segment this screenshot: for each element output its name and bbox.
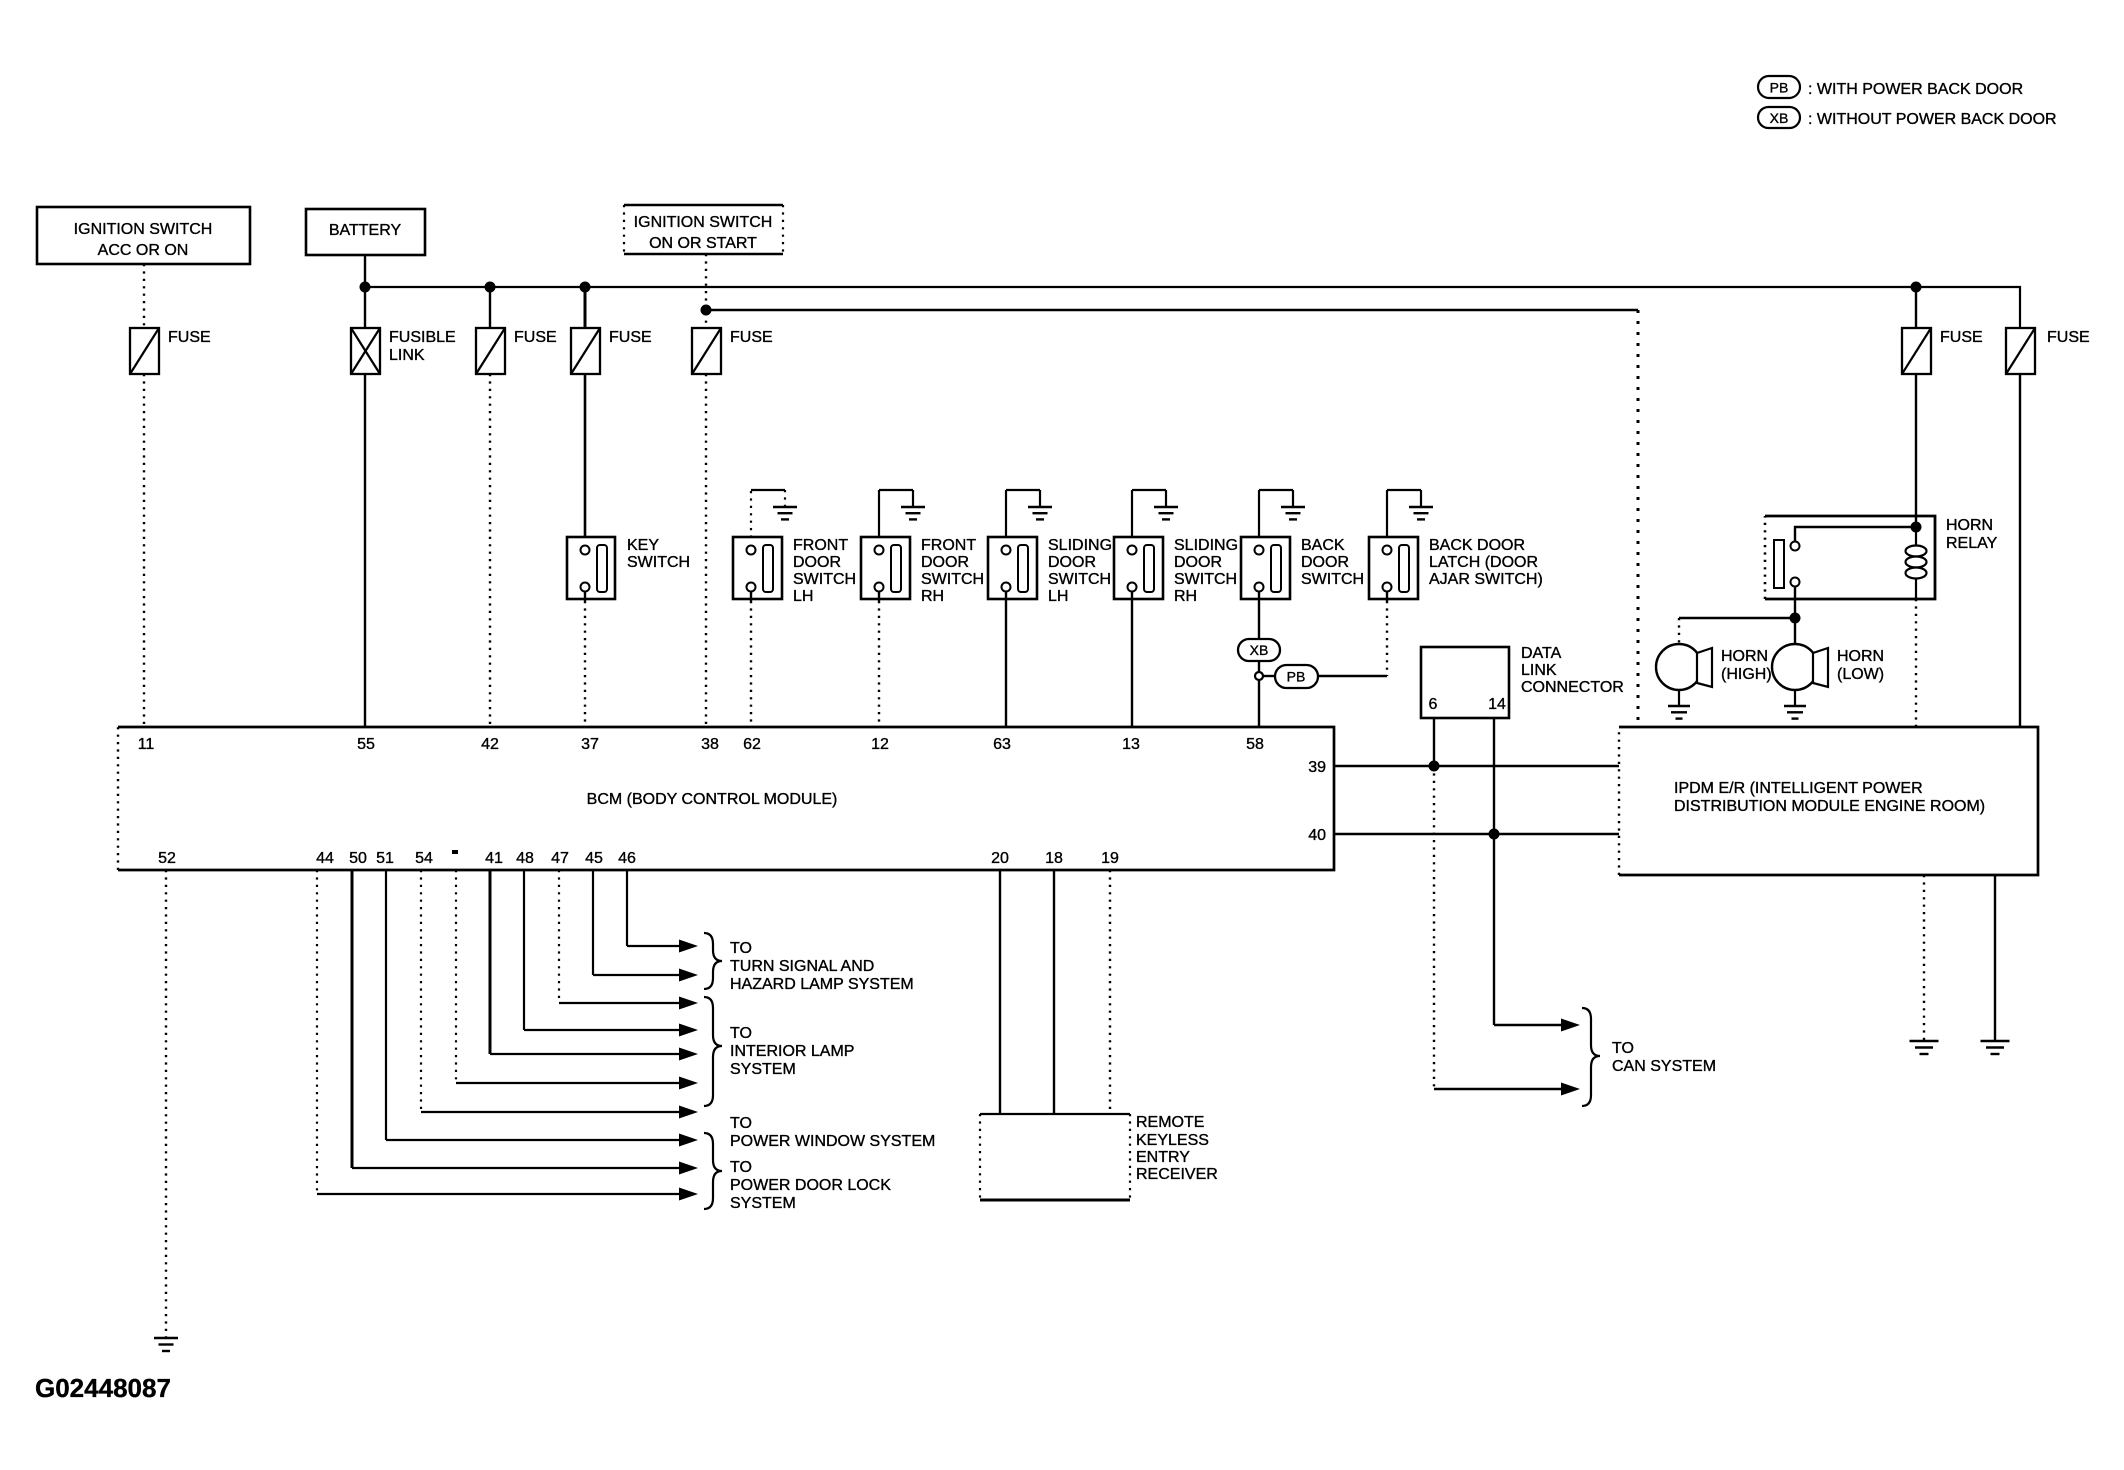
svg-text:IPDM E/R (INTELLIGENT POWER: IPDM E/R (INTELLIGENT POWER (1674, 780, 1923, 797)
svg-text:LINK: LINK (389, 347, 425, 364)
svg-text:CONNECTOR: CONNECTOR (1521, 679, 1624, 696)
fuse F2 (476, 328, 505, 374)
svg-text:62: 62 (743, 736, 761, 753)
node open circle (1255, 672, 1263, 680)
wire node to BCM pin 58 (1258, 680, 1260, 727)
svg-text:: WITHOUT POWER BACK DOOR: : WITHOUT POWER BACK DOOR (1808, 111, 2057, 128)
svg-text:BACK: BACK (1301, 537, 1345, 554)
label REMOTE KEYLESS ENTRY RECEIVER (1136, 1114, 1218, 1183)
svg-text:6: 6 (1429, 696, 1438, 713)
ground (901, 507, 925, 519)
svg-text:55: 55 (357, 736, 375, 753)
svg-text:RH: RH (921, 588, 944, 605)
label HORN RELAY (1946, 517, 1998, 552)
brace power door lock group (704, 1133, 722, 1209)
svg-text:SWITCH: SWITCH (1301, 571, 1364, 588)
ground (1154, 507, 1178, 519)
wire DLC pin 6 down (1433, 718, 1435, 766)
wire relay coil to IPDM (1915, 599, 1917, 727)
wire fuse F2 to BCM pin 42 (489, 374, 491, 727)
svg-text:58: 58 (1246, 736, 1264, 753)
wire horn high drop (1678, 618, 1680, 644)
ground horn low (1784, 706, 1806, 719)
relay coil (1906, 527, 1927, 599)
svg-text:KEY: KEY (627, 537, 659, 554)
svg-text:TURN SIGNAL AND: TURN SIGNAL AND (730, 958, 874, 975)
BCM bottom pin mark (unreadable) (452, 850, 458, 854)
svg-text:SLIDING: SLIDING (1174, 537, 1238, 554)
wire DLC pin 14 down (1493, 718, 1495, 834)
svg-text:LH: LH (1048, 588, 1068, 605)
svg-text:TO: TO (730, 940, 752, 957)
BCM (Body Control Module) box (118, 727, 1334, 870)
connector PB pill (1275, 665, 1318, 688)
svg-text:IGNITION SWITCH: IGNITION SWITCH (634, 214, 773, 231)
key switch (567, 537, 615, 599)
svg-text:FRONT: FRONT (793, 537, 848, 554)
horn low (1772, 644, 1828, 706)
wire BCM pin 47 (559, 870, 698, 1010)
wire BCM pin 19 to RKE (1109, 870, 1111, 1114)
svg-text:LH: LH (793, 588, 813, 605)
label TO CAN SYSTEM (1612, 1040, 1716, 1075)
svg-text:DOOR: DOOR (921, 554, 969, 571)
horn relay box (1765, 516, 1935, 599)
svg-text:(HIGH): (HIGH) (1721, 666, 1772, 683)
svg-text:SWITCH: SWITCH (627, 554, 690, 571)
svg-text:51: 51 (376, 850, 394, 867)
wire DLC pin 6 to CAN (1433, 766, 1435, 1089)
IPDM E/R box (1619, 727, 2038, 875)
wire FDS RH to BCM pin 12 (878, 592, 880, 601)
wire BCM pin pin ' (456, 870, 698, 1090)
wire bus1 to fuse F6 (1915, 287, 1917, 328)
fuse F3 (571, 328, 600, 374)
wire key switch to BCM pin 37 (584, 592, 586, 601)
svg-text:SYSTEM: SYSTEM (730, 1061, 796, 1078)
svg-text:19: 19 (1101, 850, 1119, 867)
svg-text:48: 48 (516, 850, 534, 867)
svg-text:18: 18 (1045, 850, 1063, 867)
wire switch ground hook (1005, 490, 1007, 545)
svg-text:INTERIOR LAMP: INTERIOR LAMP (730, 1043, 854, 1060)
label text BACK DOOR SWITCH (1301, 537, 1364, 588)
label TO POWER WINDOW SYSTEM (730, 1115, 935, 1150)
relay contact bar (1774, 540, 1784, 588)
back door latch (door ajar switch) (1369, 537, 1418, 599)
svg-text:12: 12 (871, 736, 889, 753)
wire BCM pin 51 (386, 870, 698, 1147)
wire BDS to XB connector (1258, 592, 1260, 639)
wire switch ground hook (750, 490, 752, 545)
svg-text:REMOTE: REMOTE (1136, 1114, 1204, 1131)
label DATA LINK CONNECTOR (1521, 645, 1624, 696)
wire BCM pin 48 (524, 870, 698, 1037)
svg-text:AJAR SWITCH): AJAR SWITCH) (1429, 571, 1543, 588)
svg-text:RECEIVER: RECEIVER (1136, 1166, 1218, 1183)
label text FRONT DOOR SWITCH LH (793, 537, 856, 605)
label TO TURN SIGNAL AND HAZARD LAMP SYSTEM (730, 940, 914, 993)
wire DLC pin 14 to CAN (1493, 834, 1495, 1025)
svg-text:BACK DOOR: BACK DOOR (1429, 537, 1525, 554)
wire fuse F1 to BCM pin 11 (143, 374, 145, 727)
svg-text:47: 47 (551, 850, 569, 867)
svg-text:ACC OR ON: ACC OR ON (98, 242, 189, 259)
box IGNITION SWITCH ON OR START (624, 205, 783, 254)
back door switch (1241, 537, 1290, 599)
svg-text:TO: TO (730, 1115, 752, 1132)
svg-text:TO: TO (730, 1025, 752, 1042)
BCM top pin labels (138, 736, 1264, 753)
svg-text:FUSE: FUSE (730, 329, 773, 346)
wire bus1 to fuse F3 (584, 287, 587, 328)
svg-text:RH: RH (1174, 588, 1197, 605)
junction bus1-fuse3 (580, 282, 591, 293)
wire BDL down to PB link (1386, 592, 1388, 601)
wire to horn high (1679, 617, 1795, 619)
svg-text:HORN: HORN (1721, 648, 1768, 665)
ground (1028, 507, 1052, 519)
front door switch LH (733, 537, 782, 599)
svg-text:LINK: LINK (1521, 662, 1557, 679)
svg-text:14: 14 (1488, 696, 1506, 713)
wire bus2 ignition feed (706, 309, 1638, 311)
wire bus1 battery feed (365, 287, 2020, 328)
wire fuse F4 to BCM pin 38 (705, 374, 707, 727)
relay internal wire (1795, 527, 1916, 541)
box IGNITION SWITCH ACC OR ON (37, 207, 250, 264)
svg-text:DOOR: DOOR (793, 554, 841, 571)
svg-text:G02448087: G02448087 (35, 1373, 171, 1403)
label text SLIDING DOOR SWITCH LH (1048, 537, 1112, 605)
svg-text:HORN: HORN (1946, 517, 1993, 534)
svg-text:46: 46 (618, 850, 636, 867)
svg-text:CAN SYSTEM: CAN SYSTEM (1612, 1058, 1716, 1075)
svg-text:FUSE: FUSE (2047, 329, 2090, 346)
svg-text:40: 40 (1308, 827, 1326, 844)
wire BCM pin 40 to IPDM (1334, 833, 1619, 836)
horn high (1656, 644, 1712, 706)
svg-text:TO: TO (1612, 1040, 1634, 1057)
wire switch ground hook (878, 490, 880, 545)
wire ignition ON/START down through bus (705, 254, 707, 328)
svg-text:13: 13 (1122, 736, 1140, 753)
junction bus1-fuse2 (485, 282, 496, 293)
wire FDS LH to BCM pin 62 (750, 592, 752, 601)
svg-text:HAZARD LAMP SYSTEM: HAZARD LAMP SYSTEM (730, 976, 914, 993)
svg-text:BATTERY: BATTERY (329, 222, 402, 239)
svg-text:: WITH POWER BACK DOOR: : WITH POWER BACK DOOR (1808, 81, 2023, 98)
arrow to CAN (high) (1494, 1019, 1580, 1032)
wire to horn low (1794, 618, 1796, 644)
svg-text:FUSE: FUSE (514, 329, 557, 346)
wire bus1 to fuse F2 (489, 287, 491, 328)
svg-text:KEYLESS: KEYLESS (1136, 1132, 1209, 1149)
wire fusible link to BCM pin 55 (364, 374, 366, 727)
sliding door switch LH (988, 537, 1037, 599)
data link connector box (1421, 647, 1509, 718)
svg-text:SLIDING: SLIDING (1048, 537, 1112, 554)
svg-text:POWER WINDOW SYSTEM: POWER WINDOW SYSTEM (730, 1133, 935, 1150)
fuse F6 (horn relay) (1902, 328, 1931, 374)
svg-text:52: 52 (158, 850, 176, 867)
wire battery down (364, 255, 366, 328)
sliding door switch RH (1114, 537, 1163, 599)
junction DLC14-wire40 (1489, 829, 1500, 840)
wire fuse F6 to horn relay (1915, 374, 1917, 527)
svg-text:SYSTEM: SYSTEM (730, 1195, 796, 1212)
brace turn signal group (704, 933, 722, 989)
arrow to CAN (low) (1434, 1083, 1580, 1096)
wire BCM pin 39 to IPDM (1334, 765, 1619, 768)
svg-text:50: 50 (349, 850, 367, 867)
wire node to PB pill (1263, 675, 1275, 677)
svg-text:39: 39 (1308, 759, 1326, 776)
legend PB pill (1758, 76, 1800, 98)
junction bus1-fuse6 (1911, 282, 1922, 293)
wire BCM pin 18 to RKE (1053, 870, 1055, 1114)
ground (1409, 507, 1433, 519)
wire relay output down (1794, 587, 1796, 618)
svg-text:(LOW): (LOW) (1837, 666, 1884, 683)
svg-text:45: 45 (585, 850, 603, 867)
wire bus2 drop to IPDM (1637, 310, 1640, 727)
svg-text:RELAY: RELAY (1946, 535, 1998, 552)
svg-text:FRONT: FRONT (921, 537, 976, 554)
junction bus1-battery (360, 282, 371, 293)
svg-text:FUSE: FUSE (609, 329, 652, 346)
ground horn high (1668, 706, 1690, 719)
svg-text:FUSE: FUSE (1940, 329, 1983, 346)
wire BCM pin 52 to ground (165, 870, 167, 1338)
ground (1281, 507, 1305, 519)
svg-text:DATA: DATA (1521, 645, 1562, 662)
svg-text:POWER DOOR LOCK: POWER DOOR LOCK (730, 1177, 891, 1194)
svg-text:ON OR START: ON OR START (649, 235, 757, 252)
label text FRONT DOOR SWITCH RH (921, 537, 984, 605)
svg-text:FUSIBLE: FUSIBLE (389, 329, 456, 346)
svg-text:DOOR: DOOR (1174, 554, 1222, 571)
brace interior lamp group (704, 997, 722, 1106)
label KEY SWITCH (627, 537, 690, 571)
svg-text:LATCH (DOOR: LATCH (DOOR (1429, 554, 1538, 571)
svg-text:PB: PB (1770, 80, 1789, 96)
svg-text:42: 42 (481, 736, 499, 753)
label text SLIDING DOOR SWITCH RH (1174, 537, 1238, 605)
wire switch ground hook (1258, 490, 1260, 545)
label TO POWER DOOR LOCK SYSTEM (730, 1159, 891, 1212)
svg-text:ENTRY: ENTRY (1136, 1149, 1190, 1166)
front door switch RH (861, 537, 910, 599)
wire BCM pin 46 (627, 870, 698, 953)
svg-text:FUSE: FUSE (168, 329, 211, 346)
wire IPDM ground 1 (1923, 875, 1925, 1041)
wire SDS LH to BCM pin 63 (1005, 592, 1007, 727)
svg-text:SWITCH: SWITCH (921, 571, 984, 588)
svg-text:IGNITION SWITCH: IGNITION SWITCH (74, 221, 213, 238)
junction relay coil feed (1911, 522, 1922, 533)
svg-text:HORN: HORN (1837, 648, 1884, 665)
brace CAN system (1582, 1008, 1600, 1106)
BCM right pin labels 39 40 (1308, 759, 1326, 844)
wire BCM pin 54 (421, 870, 698, 1119)
ground IPDM 2 (1981, 1041, 2010, 1054)
fuse F1 (ACC) (130, 328, 159, 374)
wire switch ground hook (1386, 490, 1388, 545)
svg-text:63: 63 (993, 736, 1011, 753)
svg-text:XB: XB (1250, 642, 1269, 658)
svg-text:20: 20 (991, 850, 1009, 867)
junction horns (1790, 613, 1801, 624)
wire BCM pin 50 (352, 870, 698, 1175)
junction bus2-ignition (701, 305, 712, 316)
wire BCM pin 41 (490, 870, 698, 1061)
wire BCM pin 45 (593, 870, 698, 982)
fuse F7 (IPDM) (2006, 328, 2035, 374)
label IPDM E/R (1674, 780, 1985, 815)
BCM bottom pin labels (158, 850, 1119, 867)
wire BCM pin 44 (317, 870, 698, 1201)
fusible link (351, 328, 380, 374)
svg-text:37: 37 (581, 736, 599, 753)
relay contact pins (1791, 542, 1800, 587)
remote keyless entry receiver box (980, 1114, 1130, 1200)
svg-text:BCM (BODY CONTROL MODULE): BCM (BODY CONTROL MODULE) (587, 791, 838, 808)
box BATTERY (306, 209, 425, 255)
ground pin 52 (154, 1338, 178, 1351)
svg-text:XB: XB (1770, 110, 1789, 126)
wire fuse F3 to key switch (584, 374, 587, 545)
svg-text:SWITCH: SWITCH (1048, 571, 1111, 588)
svg-text:38: 38 (701, 736, 719, 753)
fuse F4 (ignition) (692, 328, 721, 374)
wire switch ground hook (1131, 490, 1133, 545)
svg-text:11: 11 (138, 736, 155, 753)
label horn low (1837, 648, 1884, 683)
svg-text:44: 44 (316, 850, 334, 867)
label text BACK DOOR LATCH (1429, 537, 1543, 588)
wire PB pill to back door latch (1318, 675, 1387, 677)
wire SDS RH to BCM pin 13 (1131, 592, 1133, 727)
ground (773, 507, 797, 519)
wire ignition ACC to fuse (143, 264, 145, 328)
wire IPDM ground 2 (1994, 875, 1996, 1041)
wire XB to node (1258, 661, 1260, 672)
legend XB pill (1758, 107, 1800, 128)
svg-text:PB: PB (1287, 669, 1306, 685)
junction DLC6-wire39 (1429, 761, 1440, 772)
svg-text:SWITCH: SWITCH (793, 571, 856, 588)
svg-text:DOOR: DOOR (1301, 554, 1349, 571)
svg-text:TO: TO (730, 1159, 752, 1176)
ground IPDM 1 (1910, 1041, 1939, 1054)
wire BCM pin 20 to RKE (999, 870, 1001, 1114)
svg-text:41: 41 (485, 850, 503, 867)
label horn high (1721, 648, 1772, 683)
svg-text:DISTRIBUTION MODULE ENGINE ROO: DISTRIBUTION MODULE ENGINE ROOM) (1674, 798, 1985, 815)
svg-text:SWITCH: SWITCH (1174, 571, 1237, 588)
connector XB pill (1238, 639, 1280, 661)
wire fuse F7 to IPDM (2019, 374, 2021, 727)
svg-text:54: 54 (415, 850, 433, 867)
label TO INTERIOR LAMP SYSTEM (730, 1025, 854, 1078)
svg-text:DOOR: DOOR (1048, 554, 1096, 571)
DLC pin labels 6 14 (1429, 696, 1506, 713)
